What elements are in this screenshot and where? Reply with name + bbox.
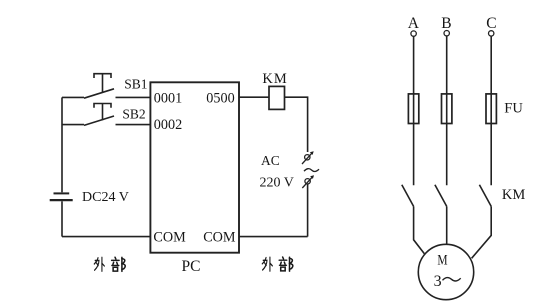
wire phase A drop <box>413 36 415 185</box>
svg-text:M: M <box>437 253 447 269</box>
wire phase C drop <box>490 36 492 185</box>
svg-text:C: C <box>486 15 496 32</box>
svg-text:SB2: SB2 <box>122 107 145 122</box>
svg-text:0002: 0002 <box>154 117 182 133</box>
pushbutton SB2 actuator <box>94 104 111 121</box>
wire bottom right rail <box>239 236 308 238</box>
wire left vertical upper <box>61 97 63 192</box>
phase A terminal <box>411 31 416 36</box>
KM contact phase B blade <box>435 185 447 207</box>
fuse FU phase B <box>442 94 452 124</box>
svg-text:0001: 0001 <box>154 91 182 107</box>
svg-text:A: A <box>408 15 420 32</box>
pushbutton SB2 blade <box>84 116 114 125</box>
AC terminal 2 <box>302 175 314 188</box>
svg-text:220 V: 220 V <box>260 175 294 190</box>
wire KM coil to right rail <box>285 97 308 152</box>
label waibu right (external) <box>262 257 293 271</box>
svg-text:AC: AC <box>261 153 280 168</box>
svg-text:KM: KM <box>502 187 525 203</box>
wire SB1 right terminal <box>116 96 151 98</box>
motor M circle <box>418 244 473 299</box>
motor tilde of 3~ <box>443 278 461 281</box>
pushbutton SB1 blade <box>84 89 114 98</box>
phase C terminal <box>489 31 494 36</box>
AC terminal 1 <box>302 151 314 164</box>
svg-text:COM: COM <box>153 229 186 245</box>
KM contact phase A blade <box>402 185 414 207</box>
svg-text:0500: 0500 <box>206 91 234 107</box>
wire phase B drop <box>446 36 448 185</box>
KM contact phase C blade <box>479 185 491 207</box>
wire right vertical lower <box>307 184 309 236</box>
svg-text:B: B <box>441 15 451 32</box>
svg-text:COM: COM <box>203 229 236 245</box>
wire SB2 right terminal <box>116 124 151 126</box>
AC tilde <box>304 169 319 172</box>
svg-text:3: 3 <box>434 273 442 290</box>
svg-text:SB1: SB1 <box>124 76 147 91</box>
wire phase C to motor <box>472 206 492 258</box>
battery DC24V bottom plate <box>50 199 73 201</box>
wire battery to bottom rail <box>61 201 63 236</box>
battery DC24V top plate <box>54 192 70 194</box>
wire phase B to motor <box>446 206 448 244</box>
svg-text:FU: FU <box>504 101 523 117</box>
svg-text:KM: KM <box>262 71 287 87</box>
pushbutton SB1 actuator <box>94 74 111 93</box>
wire 0500 to KM coil <box>239 96 269 98</box>
wire phase A to motor <box>414 206 425 253</box>
svg-text:PC: PC <box>182 258 201 275</box>
wire SB1 left terminal <box>62 96 84 98</box>
label waibu left (external) <box>94 257 125 271</box>
fuse FU phase C <box>486 94 496 124</box>
wire SB2 left terminal <box>62 124 84 126</box>
PLC box PC <box>150 82 239 252</box>
svg-text:DC24 V: DC24 V <box>82 190 129 205</box>
phase B terminal <box>444 31 449 36</box>
wire bottom left rail <box>62 236 150 238</box>
fuse FU phase A <box>408 94 418 124</box>
contactor coil KM <box>269 86 285 109</box>
